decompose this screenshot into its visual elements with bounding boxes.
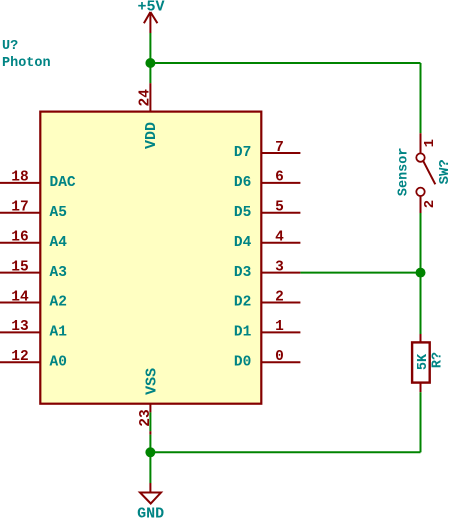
junction at GND node — [145, 447, 155, 457]
IC U? Photon body — [40, 112, 261, 404]
svg-text:D5: D5 — [234, 205, 251, 221]
pin 24 VDD — [137, 83, 160, 149]
svg-text:16: 16 — [11, 230, 28, 246]
pin 12 A0 — [0, 349, 67, 370]
svg-text:D6: D6 — [234, 175, 251, 191]
wire top horizontal to switch — [150, 62, 420, 64]
wire bottom horizontal — [150, 451, 420, 453]
pin 4 D4 — [234, 230, 301, 251]
junction at D3 node — [416, 268, 426, 278]
pin 14 A2 — [0, 289, 67, 310]
svg-text:5K: 5K — [416, 353, 431, 370]
pin 6 D6 — [234, 170, 301, 191]
svg-text:14: 14 — [11, 289, 29, 305]
svg-text:5: 5 — [275, 200, 284, 216]
svg-text:2: 2 — [422, 200, 438, 208]
svg-text:A0: A0 — [50, 355, 67, 371]
svg-text:A1: A1 — [50, 325, 68, 341]
junction at +5V node — [145, 58, 155, 68]
pin 1 D1 — [234, 319, 301, 340]
reference designator U? — [2, 39, 18, 54]
svg-text:6: 6 — [275, 170, 284, 186]
svg-text:3: 3 — [275, 259, 284, 275]
svg-text:Sensor: Sensor — [397, 147, 412, 196]
svg-text:13: 13 — [11, 319, 28, 335]
pin 3 D3 — [234, 259, 301, 280]
svg-text:D7: D7 — [234, 145, 251, 161]
svg-text:A2: A2 — [50, 295, 67, 311]
ground symbol GND — [137, 483, 164, 523]
pin 2 D2 — [234, 289, 301, 310]
svg-text:A5: A5 — [50, 205, 67, 221]
pin 5 D5 — [234, 200, 301, 221]
svg-text:VSS: VSS — [144, 368, 161, 395]
svg-text:VDD: VDD — [143, 122, 160, 149]
svg-text:D0: D0 — [234, 355, 251, 371]
svg-text:R?: R? — [431, 352, 446, 368]
svg-text:18: 18 — [11, 170, 28, 186]
pin 0 D0 — [234, 349, 301, 370]
svg-text:D2: D2 — [234, 295, 251, 311]
svg-text:24: 24 — [137, 89, 153, 107]
svg-text:1: 1 — [275, 319, 284, 335]
svg-text:1: 1 — [422, 139, 438, 147]
pin 18 DAC — [0, 170, 76, 191]
svg-text:U?: U? — [2, 39, 18, 54]
svg-text:A3: A3 — [50, 265, 67, 281]
wire down to switch pin 1 — [420, 63, 422, 133]
pin 13 A1 — [0, 319, 67, 340]
wire D3 horizontal — [300, 272, 420, 274]
svg-text:D3: D3 — [234, 265, 251, 281]
pin 23 VSS — [138, 368, 161, 435]
svg-text:A4: A4 — [50, 235, 68, 251]
svg-text:15: 15 — [11, 259, 28, 275]
value label Photon — [2, 56, 51, 71]
svg-text:4: 4 — [275, 230, 284, 246]
svg-text:23: 23 — [138, 409, 154, 426]
svg-text:GND: GND — [137, 506, 164, 520]
power symbol +5V — [137, 0, 164, 33]
svg-text:17: 17 — [11, 200, 28, 216]
svg-text:12: 12 — [11, 349, 28, 365]
pin 17 A5 — [0, 200, 67, 221]
svg-text:7: 7 — [275, 140, 284, 156]
pin 16 A4 — [0, 230, 67, 251]
switch SW? Sensor — [397, 133, 450, 213]
svg-text:DAC: DAC — [50, 175, 76, 191]
resistor R? 5K — [412, 334, 446, 392]
svg-text:SW?: SW? — [437, 159, 450, 184]
pin 7 D7 — [234, 140, 301, 161]
wire +5V down to VDD pin — [149, 33, 151, 83]
svg-text:0: 0 — [275, 349, 284, 365]
wire switch pin 2 down to resistor — [420, 213, 422, 334]
wire VSS pin to ground node (upper) — [149, 412, 151, 431]
svg-text:Photon: Photon — [2, 56, 51, 71]
wire resistor down to corner — [420, 392, 422, 452]
svg-text:2: 2 — [275, 289, 284, 305]
pin 15 A3 — [0, 259, 67, 280]
wire ground node down to GND symbol — [149, 435, 151, 483]
svg-text:D1: D1 — [234, 325, 252, 341]
svg-text:D4: D4 — [234, 235, 252, 251]
